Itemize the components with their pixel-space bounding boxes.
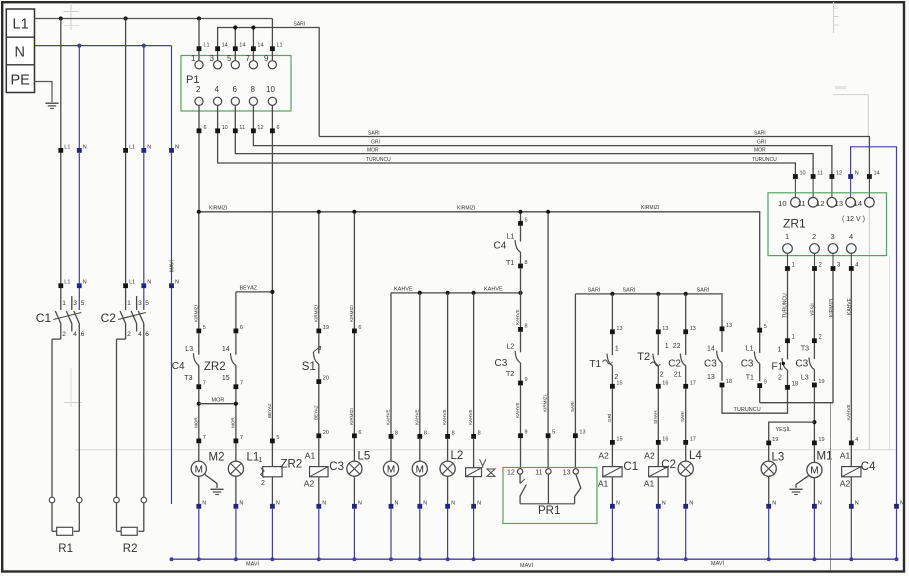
svg-text:6: 6 [358, 325, 361, 331]
contact F1 [787, 343, 789, 360]
svg-text:4: 4 [855, 437, 858, 443]
svg-text:KAHVE: KAHVE [484, 287, 503, 293]
wire T2 col top [657, 294, 659, 330]
terminal square C1 N lower [77, 283, 82, 288]
terminal square C4-N [849, 504, 854, 509]
wire YESIL down [813, 387, 815, 440]
svg-text:2: 2 [812, 232, 816, 241]
terminal circle R1 right [77, 497, 83, 503]
terminal square ZR2c-6 [234, 329, 239, 334]
wire Mb stub [419, 439, 421, 461]
svg-text:8: 8 [251, 85, 256, 94]
svg-text:1: 1 [62, 300, 66, 307]
svg-text:T3: T3 [184, 375, 192, 382]
svg-text:C3: C3 [495, 358, 508, 369]
wire PR1-13 stub [574, 438, 576, 469]
node pin5 top [233, 25, 237, 29]
svg-text:6: 6 [240, 325, 243, 331]
ZR1 top circles 10-14 [791, 198, 801, 208]
svg-text:13: 13 [616, 326, 622, 332]
terminal square L2-8 [445, 434, 450, 439]
svg-text:12: 12 [816, 199, 824, 208]
ground PE [45, 102, 58, 104]
contact C3 L1/T1 [759, 333, 761, 353]
terminal square C4-4 [849, 441, 854, 446]
nodes MAVI bus [170, 557, 174, 561]
svg-text:KIRMIZI: KIRMIZI [457, 206, 475, 212]
node BEYAZ pin10 [270, 290, 274, 294]
svg-text:7: 7 [240, 381, 243, 387]
wire M1 to N [813, 478, 815, 504]
wire SARI header [218, 28, 320, 137]
wire T1 col lower [611, 389, 613, 441]
svg-text:8: 8 [452, 430, 455, 436]
PR1 contact 12 [519, 474, 521, 483]
svg-text:SARI: SARI [294, 22, 306, 28]
node N-C1 [77, 44, 81, 48]
svg-text:A1: A1 [305, 451, 316, 461]
terminal squares above ZR1 [793, 174, 798, 179]
node SARI-T2 [656, 292, 660, 296]
terminal square C2 L1 upper [123, 148, 128, 153]
terminal square valve-N [471, 504, 476, 509]
svg-text:L1: L1 [129, 144, 135, 150]
svg-text:N: N [662, 500, 666, 506]
switch S1 [318, 333, 320, 353]
svg-text:F1: F1 [772, 362, 784, 373]
relay PR1 box [503, 468, 597, 524]
svg-text:C2: C2 [668, 359, 681, 370]
svg-text:10: 10 [266, 85, 275, 94]
terminal square Mb-8 [417, 434, 422, 439]
connector P1 top circles pins 1-9 [195, 61, 203, 69]
svg-text:YEŞİL: YEŞİL [776, 426, 792, 433]
svg-text:SARI: SARI [588, 288, 601, 294]
svg-text:12: 12 [257, 125, 263, 131]
svg-text:KIRMIZI: KIRMIZI [543, 395, 548, 412]
svg-text:L3: L3 [801, 375, 809, 382]
terminal square Ma-N [389, 504, 394, 509]
wire L5 stub [353, 438, 355, 461]
wire KAHVE drop Ma [390, 293, 392, 434]
svg-text:TURUNCU: TURUNCU [734, 407, 761, 413]
wire L1-1 to N [235, 476, 237, 504]
svg-text:KAHVE: KAHVE [847, 297, 853, 315]
node KIRMIZI-PR1mid [546, 210, 550, 214]
svg-text:1: 1 [785, 232, 789, 241]
node L1-P1pin1 [197, 16, 201, 20]
terminal square F1-18 [785, 385, 790, 390]
faint horizontal line mid-page [75, 449, 896, 451]
svg-text:12: 12 [836, 171, 842, 177]
svg-text:KAHVE: KAHVE [515, 402, 520, 418]
contact T1 thermal [611, 334, 613, 355]
svg-text:KIRMIZI: KIRMIZI [829, 299, 835, 317]
svg-text:N: N [322, 500, 326, 506]
svg-text:5: 5 [145, 300, 149, 307]
svg-text:SARI: SARI [697, 288, 710, 294]
relay coil ZR2 [263, 467, 282, 477]
wire S1 column upper [318, 214, 320, 329]
terminal square below pin4 [215, 128, 220, 133]
wire valve to N [473, 477, 475, 504]
svg-text:6: 6 [145, 331, 149, 338]
svg-text:L1: L1 [64, 280, 70, 286]
wire T1 col top [611, 294, 613, 330]
wire TURUNCU link [722, 387, 788, 413]
terminal circle R1 left [49, 497, 55, 503]
svg-text:19: 19 [772, 437, 778, 443]
svg-text:C4: C4 [494, 241, 507, 252]
svg-text:13: 13 [726, 323, 732, 329]
terminal square chain-5 [518, 221, 523, 226]
terminal square L5-6b [352, 433, 357, 438]
terminal square above pin3 [215, 46, 220, 51]
svg-text:C3: C3 [329, 461, 344, 473]
terminal square chain-8b [518, 327, 523, 332]
wire MOR link [199, 403, 236, 405]
svg-text:N: N [83, 280, 87, 286]
svg-text:7: 7 [203, 381, 206, 387]
svg-text:5: 5 [227, 54, 232, 63]
svg-text:N: N [395, 500, 399, 506]
svg-text:19: 19 [818, 437, 824, 443]
wire chain to PR1 [520, 438, 522, 469]
svg-text:1: 1 [665, 343, 669, 350]
node SARI-C2aux [684, 292, 688, 296]
motor M1 [807, 462, 822, 477]
svg-text:C1: C1 [36, 311, 52, 325]
svg-text:KAHVE: KAHVE [442, 409, 447, 425]
wire C1 N pole down [78, 325, 80, 497]
wire Ma stub [390, 439, 392, 461]
svg-text:9: 9 [525, 377, 528, 383]
svg-text:L3: L3 [185, 346, 193, 353]
svg-text:SARI: SARI [680, 411, 685, 422]
svg-text:KIRMIZI: KIRMIZI [641, 205, 659, 211]
svg-text:5: 5 [203, 325, 206, 331]
svg-text:C2: C2 [101, 311, 117, 325]
svg-text:KAHVE: KAHVE [515, 309, 520, 325]
wire SARI rail [319, 137, 869, 175]
node N-C2 [142, 44, 146, 48]
svg-text:A1: A1 [840, 451, 851, 461]
svg-text:14: 14 [874, 171, 880, 177]
svg-text:15: 15 [222, 375, 230, 382]
svg-text:T1: T1 [506, 260, 514, 267]
svg-text:7: 7 [240, 435, 243, 441]
wire L3 neutral (blue) [768, 509, 770, 560]
svg-text:C4: C4 [861, 461, 876, 473]
terminal square chain-9a [518, 381, 523, 386]
terminal square chain-9b [518, 433, 523, 438]
svg-text:MOR: MOR [193, 417, 198, 428]
svg-text:22: 22 [673, 343, 681, 350]
terminal square C2aux-17a [683, 384, 688, 389]
svg-text:( 12 V ): ( 12 V ) [842, 216, 865, 223]
wire Ma neutral (blue) [390, 509, 392, 560]
svg-text:N: N [900, 500, 904, 506]
terminal square M1-N [812, 504, 817, 509]
svg-text:8: 8 [525, 323, 528, 329]
svg-text:N: N [147, 144, 151, 150]
svg-text:KIRMIZI: KIRMIZI [349, 408, 354, 425]
terminal square above pin5 [233, 46, 238, 51]
svg-text:N: N [175, 144, 179, 150]
motor pump Mb [412, 461, 427, 476]
svg-text:C1: C1 [623, 461, 638, 473]
svg-text:BEYAZ: BEYAZ [240, 286, 258, 292]
terminal square M2-7a [196, 384, 201, 389]
wire chain lower [520, 385, 522, 433]
wire C1 L1 mid [60, 153, 62, 283]
wire PR1-11 stub [547, 438, 549, 469]
svg-text:N: N [147, 280, 151, 286]
node KIRMIZI-S1 [317, 210, 321, 214]
svg-text:L1: L1 [64, 144, 70, 150]
svg-text:MOR: MOR [754, 148, 766, 154]
terminal circle R2 right [141, 497, 147, 503]
terminal square L3-19 [766, 441, 771, 446]
svg-text:C3: C3 [741, 359, 754, 370]
node MOR-M2 [197, 402, 201, 406]
relay ZR1 box [768, 193, 887, 256]
wire P1 pin6 to MOR rail [235, 106, 813, 174]
svg-text:10: 10 [800, 171, 806, 177]
lamp L1-1 [228, 461, 243, 476]
svg-text:MOR: MOR [367, 148, 379, 154]
svg-text:1: 1 [191, 54, 196, 63]
svg-text:N: N [276, 500, 280, 506]
terminal square L2-N [445, 504, 450, 509]
svg-text:N: N [855, 171, 859, 177]
svg-text:15: 15 [616, 380, 622, 386]
svg-text:N: N [477, 500, 481, 506]
contact C2 aux 22/21 [685, 334, 687, 355]
svg-text:L4: L4 [689, 450, 702, 462]
wire KAHVE drop C4 [850, 271, 852, 441]
wire P1 pin1 to L1 bus [198, 19, 200, 61]
svg-text:8: 8 [424, 430, 427, 436]
faint ruler mark top-right [833, 2, 835, 33]
node KAHVE-L2 [446, 291, 450, 295]
wire M2 stub [198, 443, 200, 461]
svg-text:3: 3 [831, 232, 835, 241]
svg-text:N: N [772, 500, 776, 506]
wire C2coil link [657, 445, 659, 467]
PR1 contact 13 [575, 474, 581, 504]
wire N bus (blue) [35, 45, 172, 47]
wire valve stub [473, 439, 475, 468]
svg-text:KIRMIZI: KIRMIZI [193, 305, 198, 322]
svg-text:MOR: MOR [212, 398, 225, 404]
svg-text:4: 4 [849, 232, 853, 241]
wire C2 pole jog [125, 324, 127, 340]
wire C3b down [759, 388, 761, 403]
node L1-C2 [124, 16, 128, 20]
svg-text:20: 20 [323, 376, 329, 382]
wire ZR2 neutral (blue) [271, 509, 273, 560]
svg-text:L1: L1 [746, 346, 754, 353]
wire L2 neutral (blue) [447, 509, 449, 560]
terminal square Ma-8 [389, 434, 394, 439]
wire Mb neutral (blue) [419, 509, 421, 560]
svg-text:14: 14 [222, 346, 230, 353]
terminal square ZR2c-7b [234, 439, 239, 444]
svg-text:19: 19 [323, 325, 329, 331]
svg-text:8: 8 [478, 430, 481, 436]
node YESIL split [812, 420, 816, 424]
svg-text:MAVİ: MAVİ [168, 260, 175, 272]
svg-text:13: 13 [662, 326, 668, 332]
valve Y1 [466, 468, 482, 477]
svg-text:12: 12 [507, 469, 515, 476]
terminal square L5-6a [352, 329, 357, 334]
svg-text:1: 1 [259, 457, 263, 464]
wire C4coil neutral (blue) [850, 509, 852, 560]
wire L4 neutral (blue) [685, 509, 687, 560]
wire KIRMIZI rail [199, 212, 760, 328]
svg-text:5: 5 [525, 217, 528, 223]
wire L2 to N [447, 476, 449, 504]
supply terminal box L1/N/PE [6, 9, 34, 93]
svg-text:N: N [202, 500, 206, 506]
terminal square above pin7 [251, 46, 256, 51]
wire KIRMIZI long drop [832, 271, 834, 403]
PR1 contact 11 [547, 474, 549, 504]
svg-text:1: 1 [615, 346, 619, 353]
wire pin5 stub [234, 28, 236, 61]
svg-text:L1: L1 [247, 452, 260, 464]
svg-text:10: 10 [222, 125, 228, 131]
svg-text:17: 17 [690, 380, 696, 386]
svg-text:ZR1: ZR1 [783, 217, 806, 231]
lamp L5 [347, 461, 362, 476]
wire KAHVE drop Mb [419, 293, 421, 434]
terminal square above pin1 [197, 46, 202, 51]
svg-text:6: 6 [204, 125, 207, 131]
svg-text:5: 5 [764, 324, 767, 330]
terminal square PR1-13 [573, 433, 578, 438]
terminal square M2-N [196, 504, 201, 509]
svg-text:BEYAZ: BEYAZ [267, 403, 272, 418]
connector P1 bottom circles pins 2-10 [195, 97, 203, 105]
svg-text:A2: A2 [304, 479, 315, 489]
svg-text:L3: L3 [772, 452, 785, 464]
svg-text:A2: A2 [598, 451, 609, 461]
wire M1 stub [813, 445, 815, 462]
svg-text:N: N [451, 500, 455, 506]
terminal square C2 L1 lower [123, 283, 128, 288]
svg-text:KIRMIZI: KIRMIZI [313, 305, 318, 322]
svg-text:GRİ: GRİ [757, 139, 766, 146]
ground M1 [789, 488, 802, 490]
terminal square below pin2 [197, 128, 202, 133]
terminal square below pin6 [233, 128, 238, 133]
wire C2 N pole down [143, 325, 145, 497]
svg-text:T1: T1 [589, 359, 601, 370]
wire C4coil to N [850, 477, 852, 504]
svg-text:S1: S1 [302, 361, 316, 373]
node KIRMIZI-L5 [352, 210, 356, 214]
terminal square L4-N [683, 504, 688, 509]
svg-text:16: 16 [662, 380, 668, 386]
PR1 bottom bar [520, 503, 575, 505]
wire C2aux col top [685, 294, 687, 330]
svg-text:1: 1 [127, 300, 131, 307]
svg-text:C3: C3 [704, 359, 717, 370]
wire C3coil link [318, 438, 320, 467]
svg-text:14: 14 [707, 346, 715, 353]
svg-text:N: N [15, 45, 25, 61]
wire P1 pin8 to GRI rail [253, 106, 832, 174]
wire KAHVE rail [391, 292, 521, 294]
svg-text:6: 6 [277, 125, 280, 131]
svg-text:8: 8 [525, 260, 528, 266]
resistor R2 [116, 503, 118, 532]
faint registration cross near C1 [70, 368, 72, 407]
wire M1 ground stem [796, 475, 809, 488]
svg-text:2: 2 [778, 375, 782, 382]
svg-text:A1: A1 [598, 479, 609, 489]
svg-text:9: 9 [264, 54, 269, 63]
terminal square C3coil-N [316, 504, 321, 509]
wire P1 pin2 down [198, 106, 200, 212]
svg-text:N: N [358, 500, 362, 506]
svg-text:MAVİ: MAVİ [711, 560, 725, 567]
svg-text:T2: T2 [506, 371, 514, 378]
wire ZR2c stub [235, 443, 237, 461]
wire L5 neutral (blue) [353, 509, 355, 560]
wire C1 L1 drop [60, 19, 62, 149]
svg-text:KAHVE: KAHVE [468, 409, 473, 425]
svg-text:R2: R2 [123, 543, 138, 555]
node pin7 top [251, 25, 255, 29]
wire C1 N mid (blue) [78, 153, 80, 283]
wire M2 to MOR node [198, 389, 200, 439]
wire pin7 stub [252, 28, 254, 61]
wire P1 pin10 down (BEYAZ) [271, 106, 273, 467]
wire L2 stub [447, 439, 449, 461]
wires ZR1 terminal stubs [794, 179, 796, 198]
terminal circle R2 left [114, 497, 120, 503]
svg-text:14: 14 [222, 43, 228, 49]
svg-text:SARI: SARI [754, 131, 766, 137]
terminal square T2-16b [656, 440, 661, 445]
svg-text:5: 5 [276, 435, 279, 441]
svg-text:KAHVE: KAHVE [386, 409, 391, 425]
terminal square C1 L1 upper [58, 148, 63, 153]
svg-text:15: 15 [616, 436, 622, 442]
wire C1coil to N [611, 477, 613, 504]
terminal square C2aux-17b [683, 440, 688, 445]
wire L5 column [353, 214, 355, 329]
svg-text:KIRMIZI: KIRMIZI [349, 305, 354, 322]
svg-text:C4: C4 [172, 361, 185, 372]
terminal square C1-N [610, 504, 615, 509]
terminal square T1-15b [610, 440, 615, 445]
svg-text:BEYAZ: BEYAZ [313, 405, 318, 420]
terminal square C3b-9 [757, 383, 762, 388]
terminal square T1-13 [610, 329, 615, 334]
svg-text:6: 6 [81, 331, 85, 338]
svg-text:T3: T3 [801, 346, 809, 353]
terminal square F1-1 [785, 338, 790, 343]
wire C1 N drop (blue) [78, 46, 80, 148]
wire C2 L1 drop [125, 19, 127, 149]
wire C2 N drop (blue) [143, 46, 145, 148]
terminal square C2-N [656, 504, 661, 509]
